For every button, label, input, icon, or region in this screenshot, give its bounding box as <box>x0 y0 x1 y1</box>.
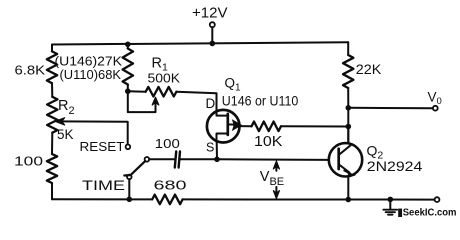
svg-text:+12V: +12V <box>192 5 228 22</box>
svg-text:(U110)68K: (U110)68K <box>60 68 122 82</box>
VBE dimension up arrow <box>275 163 277 171</box>
R2 wiper arrowhead <box>55 118 64 125</box>
wire Q1 source to S node <box>216 142 218 159</box>
wire between 6.8K and R2 <box>51 83 53 97</box>
Q2 emitter line <box>339 164 350 172</box>
wire 27K bottom to node <box>127 85 129 92</box>
transistor Q1 JFET body <box>207 110 240 143</box>
terminal bottom right <box>435 197 440 202</box>
node switch pole on rail <box>127 197 133 203</box>
svg-text:▮SeekIC.com: ▮SeekIC.com <box>398 206 457 218</box>
svg-text:TIME: TIME <box>82 178 125 193</box>
node dot R1 junction <box>125 88 131 94</box>
Q1 gate bar <box>226 114 229 135</box>
node Q2 emitter on rail <box>346 197 352 203</box>
svg-text:VBE: VBE <box>260 169 284 188</box>
svg-text:RESET: RESET <box>80 140 125 154</box>
wire Vo node down to Q2 collector <box>347 108 349 144</box>
wire R1 wiper loop <box>128 91 156 112</box>
terminal Vo <box>433 106 438 111</box>
node 10K junction <box>346 124 352 130</box>
node S junction <box>214 157 220 163</box>
resistor 6.8K <box>47 51 57 83</box>
wire Q2 emitter lead to rail <box>347 176 349 199</box>
ground stub <box>389 199 391 209</box>
+12V supply terminal <box>210 22 215 27</box>
resistor 10K <box>252 122 282 132</box>
Q1 gate arrowhead <box>233 121 241 130</box>
svg-text:S: S <box>206 141 214 155</box>
wire Q2 collector lead <box>347 127 349 144</box>
wire Vo line <box>348 107 433 109</box>
wire R2 wiper to RESET <box>59 121 128 144</box>
VBE dimension down arrow <box>275 187 277 197</box>
wire between R2 and 100 <box>51 133 53 154</box>
wire left branch bottom segment <box>51 183 53 199</box>
switch pole <box>127 175 132 180</box>
wire bottom rail <box>52 198 435 200</box>
svg-text:R2: R2 <box>58 98 75 117</box>
svg-text:500K: 500K <box>148 70 181 85</box>
switch contact RESET <box>126 145 131 150</box>
wire right branch top <box>347 42 349 55</box>
wire 27K branch top <box>127 44 129 48</box>
svg-text:V0: V0 <box>428 90 442 108</box>
svg-text:D: D <box>206 96 216 111</box>
ground bars <box>383 210 397 215</box>
svg-text:680: 680 <box>154 177 187 192</box>
svg-text:2N2924: 2N2924 <box>367 159 423 174</box>
node dot rail at 27K branch <box>125 42 131 48</box>
wire switch pole to bottom rail <box>128 179 130 199</box>
wire Q1 gate to 10K <box>240 125 252 127</box>
svg-text:U146 or U110: U146 or U110 <box>222 92 299 108</box>
wire R1 left lead <box>128 90 146 93</box>
capacitor 100 <box>175 152 180 168</box>
wire +12V to rail <box>211 27 213 43</box>
wire 10K to right branch <box>281 125 348 127</box>
node dot rail at +12V <box>210 41 216 47</box>
wire left branch top segment <box>51 45 53 52</box>
wire capacitor to S node <box>180 158 217 160</box>
Q1 gate arrow line <box>228 123 240 126</box>
node ground on rail <box>388 197 394 203</box>
resistor 680 <box>152 195 182 205</box>
wire top rail <box>52 42 348 44</box>
resistor 22K <box>343 55 353 88</box>
switch contact TIME side <box>145 157 150 162</box>
Q1 source lead inside <box>217 134 228 143</box>
Q2 emitter arrowhead <box>344 170 353 175</box>
resistor 100 (left) <box>47 154 57 183</box>
svg-text:100: 100 <box>155 136 180 151</box>
wire TIME contact to capacitor <box>149 158 174 160</box>
resistor R1 500K <box>146 87 177 97</box>
svg-text:(U146)27K: (U146)27K <box>55 55 123 69</box>
Q2 collector line <box>339 145 352 155</box>
node Vo junction <box>346 105 352 111</box>
potentiometer R2 5K <box>47 97 57 133</box>
wire R1 right lead to Q1 drain <box>176 92 216 112</box>
svg-text:6.8K: 6.8K <box>15 63 46 78</box>
svg-text:22K: 22K <box>356 61 382 77</box>
transistor Q2 body <box>329 143 362 176</box>
Q1 drain lead inside <box>217 111 228 116</box>
svg-text:5K: 5K <box>57 127 74 142</box>
switch blade <box>124 161 145 175</box>
svg-text:Q1: Q1 <box>225 75 242 93</box>
Q2 base bar <box>337 149 340 169</box>
svg-text:100: 100 <box>14 153 43 168</box>
svg-text:10K: 10K <box>254 134 283 150</box>
wire 22K to Vo node <box>347 88 349 108</box>
R1 wiper arrowhead <box>152 97 159 105</box>
resistor (U146)27K (U110)68K <box>123 49 133 85</box>
wire S node to Q2 base <box>217 158 329 161</box>
